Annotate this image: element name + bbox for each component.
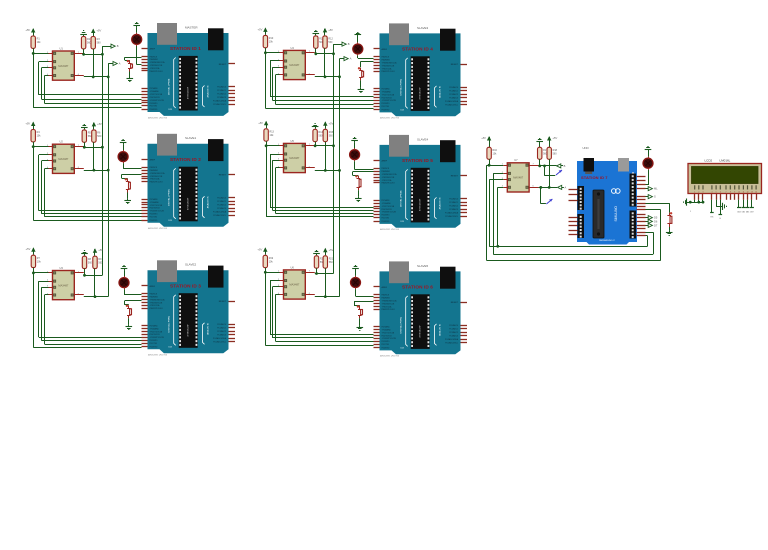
- svg-text:PC3/ADC3: PC3/ADC3: [449, 97, 458, 100]
- ground above R17: [536, 139, 543, 148]
- resistor R1: [31, 36, 41, 48]
- svg-text:ARDUINO UNO R3: ARDUINO UNO R3: [147, 354, 168, 357]
- svg-text:PC2/ADC2: PC2/ADC2: [217, 203, 226, 206]
- svg-text:UNO: UNO: [583, 146, 590, 150]
- svg-text:~PD6/AIN0: ~PD6/AIN0: [150, 201, 159, 204]
- ground above bias resistor: [81, 125, 88, 130]
- svg-text:PC4/ADC4/SDA: PC4/ADC4/SDA: [445, 212, 459, 215]
- arduino board SLAVE2 (STATION ID 3): [142, 260, 236, 356]
- svg-text:RESET: RESET: [451, 302, 459, 304]
- left header bottom: [578, 214, 585, 238]
- power +5V (R12): [323, 28, 333, 36]
- svg-text:~PD5/T1/OC0B: ~PD5/T1/OC0B: [382, 332, 395, 334]
- svg-text:+5V: +5V: [96, 29, 101, 33]
- U6 left pin stubs: [280, 273, 315, 295]
- svg-text:PC5/ADC5/SCL: PC5/ADC5/SCL: [445, 342, 458, 345]
- svg-text:PD2/INT0: PD2/INT0: [150, 340, 158, 342]
- lcd data wires D4-D7: [737, 200, 754, 214]
- resistor R21: [323, 256, 334, 268]
- svg-text:AREF: AREF: [150, 158, 156, 161]
- svg-text:B: B: [348, 42, 350, 46]
- svg-text:MAX487: MAX487: [289, 283, 300, 287]
- svg-text:+5V: +5V: [25, 28, 30, 32]
- ground above master LED: [645, 147, 652, 157]
- svg-text:~PD3/INT1/OC2B: ~PD3/INT1/OC2B: [382, 100, 397, 102]
- svg-text:ATMEGA328P: ATMEGA328P: [187, 323, 190, 336]
- svg-text:PC5/ADC5/SCL: PC5/ADC5/SCL: [213, 214, 226, 217]
- svg-text:+5V: +5V: [328, 28, 333, 32]
- svg-text:PD0/RXD: PD0/RXD: [150, 220, 158, 222]
- resistor R10: [263, 35, 274, 47]
- svg-text:PB0/ICP1/CLKO: PB0/ICP1/CLKO: [382, 183, 396, 185]
- wire U4 pin3 loop to board: [273, 67, 374, 100]
- svg-text:~PB1/OC1A: ~PB1/OC1A: [150, 304, 161, 307]
- svg-text:~PD6/AIN0: ~PD6/AIN0: [150, 90, 159, 93]
- svg-text:MAX487: MAX487: [58, 283, 69, 287]
- mounting hole bottom-left: [579, 235, 581, 237]
- svg-text:ATMEGA328P: ATMEGA328P: [187, 86, 190, 99]
- bus net B column 2 (vertical): [332, 44, 342, 273]
- left pin stubs: [569, 190, 578, 235]
- svg-text:PB0/ICP1/CLKO: PB0/ICP1/CLKO: [150, 182, 164, 184]
- wire net B station 1: [82, 49, 102, 56]
- svg-text:RESET: RESET: [451, 176, 459, 178]
- wire U6 pin4 loop to board: [276, 294, 374, 341]
- svg-text:MAX487: MAX487: [289, 63, 300, 67]
- wire pin1 to R7: [32, 272, 49, 275]
- svg-text:ATMEGA328P: ATMEGA328P: [419, 87, 422, 100]
- svg-text:PC1/ADC1: PC1/ADC1: [449, 201, 458, 204]
- svg-text:PC0/ADC0: PC0/ADC0: [449, 86, 458, 89]
- svg-text:ML: ML: [654, 187, 658, 191]
- lcd data terminals: [646, 216, 658, 228]
- svg-text:D13: D13: [169, 220, 172, 222]
- svg-text:+5V: +5V: [329, 121, 334, 125]
- svg-text:PD7/AIN1: PD7/AIN1: [150, 87, 158, 90]
- svg-text:D13: D13: [169, 109, 172, 111]
- bus net B column 1 (vertical): [101, 46, 111, 275]
- wire pin1 to R13: [265, 144, 280, 147]
- svg-text:PC0/ADC0: PC0/ADC0: [449, 198, 458, 201]
- wire pin1 to R4: [32, 145, 49, 148]
- svg-text:ANALOG IN: ANALOG IN: [206, 85, 209, 97]
- wire button to board: [125, 57, 142, 60]
- svg-text:~PB2/SS/OC1B: ~PB2/SS/OC1B: [382, 303, 396, 305]
- wire button to board: [353, 172, 374, 176]
- resistor R7: [31, 255, 41, 267]
- station 2 block: [25, 122, 141, 221]
- wire LED to board: [356, 289, 374, 296]
- svg-text:PD4/T0/XCK: PD4/T0/XCK: [382, 209, 393, 211]
- svg-text:PC5/ADC5/SCL: PC5/ADC5/SCL: [445, 215, 458, 218]
- svg-text:STATION ID 1: STATION ID 1: [170, 46, 201, 51]
- station 1 block: [25, 23, 141, 108]
- push button station 4: [358, 67, 364, 80]
- svg-text:PB4/MISO: PB4/MISO: [382, 60, 391, 62]
- svg-text:~PB2/SS/OC1B: ~PB2/SS/OC1B: [382, 177, 396, 179]
- wire to virtual terminal 1: [543, 165, 555, 176]
- wire R19 to pin1: [265, 268, 267, 273]
- rs485 transceiver U4: [278, 46, 311, 80]
- ground above bias resistor: [80, 31, 87, 37]
- svg-text:SIMULINO: SIMULINO: [614, 206, 618, 222]
- svg-text:U1: U1: [60, 46, 64, 50]
- wire button to board: [354, 302, 374, 306]
- wire net B station 6: [315, 268, 334, 275]
- svg-text:2: 2: [698, 192, 699, 194]
- svg-text:~PB2/SS/OC1B: ~PB2/SS/OC1B: [150, 176, 164, 178]
- svg-text:PB5/SCK: PB5/SCK: [382, 168, 390, 170]
- svg-text:PC4/ADC4/SDA: PC4/ADC4/SDA: [213, 100, 227, 103]
- wire U7 pin1 to R16 and loop: [487, 164, 661, 261]
- svg-text:+5V: +5V: [97, 122, 102, 126]
- arduino logo: [612, 189, 617, 194]
- wire to virtual terminal 2: [539, 186, 546, 204]
- station 7 (master) block: [481, 136, 660, 261]
- svg-text:~PD3/INT1/OC2B: ~PD3/INT1/OC2B: [150, 211, 165, 213]
- wire U1 pin2 loop to board: [39, 62, 142, 95]
- svg-text:S: S: [654, 195, 656, 199]
- svg-text:~PB2/SS/OC1B: ~PB2/SS/OC1B: [382, 65, 396, 67]
- svg-text:R10: R10: [269, 37, 274, 40]
- svg-text:SLAVE2: SLAVE2: [185, 263, 196, 267]
- svg-text:PC2/ADC2: PC2/ADC2: [449, 93, 458, 96]
- svg-text:PD0/RXD: PD0/RXD: [150, 346, 158, 348]
- svg-text:ARDUINO UNO R3: ARDUINO UNO R3: [379, 117, 400, 120]
- svg-text:PD2/INT0: PD2/INT0: [382, 341, 390, 343]
- svg-text:~PD3/INT1/OC2B: ~PD3/INT1/OC2B: [150, 337, 165, 339]
- svg-text:~PB1/OC1A: ~PB1/OC1A: [382, 67, 393, 70]
- wire pin1 to R10: [264, 51, 280, 54]
- resistor R19: [263, 255, 274, 267]
- svg-text:DB5: DB5: [742, 212, 745, 214]
- svg-text:MASTER: MASTER: [185, 25, 198, 29]
- wire net A station 1: [84, 49, 108, 78]
- ground above bias resistor: [313, 251, 320, 256]
- wire net A station 6: [315, 268, 340, 298]
- svg-text:+5V: +5V: [257, 247, 262, 251]
- wire master button: [646, 203, 670, 213]
- rs485 transceiver U3: [47, 266, 80, 300]
- svg-text:PC2/ADC2: PC2/ADC2: [449, 331, 458, 334]
- svg-text:PD4/T0/XCK: PD4/T0/XCK: [382, 97, 393, 99]
- bus net A column 2 (vertical): [338, 59, 344, 297]
- ground below button: [355, 190, 362, 201]
- svg-text:LCD2: LCD2: [705, 159, 713, 163]
- svg-text:PC2/ADC2: PC2/ADC2: [217, 330, 226, 333]
- right header bottom: [630, 211, 637, 239]
- power +5V (R7): [26, 247, 36, 255]
- svg-text:PD7/AIN1: PD7/AIN1: [382, 88, 390, 91]
- svg-text:+5V: +5V: [26, 247, 31, 251]
- wire U7 pin2 loop: [493, 173, 653, 254]
- wire R1 to pin1: [33, 48, 35, 53]
- resistor R16: [487, 147, 498, 159]
- svg-text:~PB3/MOSI/OC2A: ~PB3/MOSI/OC2A: [150, 172, 166, 175]
- push button station 2: [125, 178, 131, 192]
- resistor R15: [323, 129, 334, 141]
- svg-text:PD4/T0/XCK: PD4/T0/XCK: [382, 335, 393, 337]
- terminal ML: [646, 187, 659, 191]
- ground below master button: [666, 227, 673, 236]
- svg-text:PC0/ADC0: PC0/ADC0: [449, 324, 458, 327]
- svg-text:PD7/AIN1: PD7/AIN1: [150, 198, 158, 201]
- resistor R12: [323, 36, 334, 48]
- svg-text:DB6: DB6: [746, 212, 749, 214]
- svg-text:AREF: AREF: [382, 48, 388, 51]
- right pin stubs: [637, 177, 646, 236]
- wire LED to board: [137, 46, 142, 65]
- svg-text:~PB3/MOSI/OC2A: ~PB3/MOSI/OC2A: [150, 61, 166, 64]
- svg-text:PD1/TXD: PD1/TXD: [150, 217, 158, 219]
- svg-text:PD1/TXD: PD1/TXD: [150, 106, 158, 108]
- lcd RW ground wire: [716, 200, 726, 210]
- svg-text:PD1/TXD: PD1/TXD: [382, 218, 390, 220]
- svg-text:ARDUINO UNO R3: ARDUINO UNO R3: [147, 227, 168, 230]
- svg-text:PC1/ADC1: PC1/ADC1: [217, 200, 226, 203]
- svg-text:D13: D13: [169, 346, 172, 348]
- svg-text:SLAVE4: SLAVE4: [417, 137, 428, 141]
- svg-text:PC0/ADC0: PC0/ADC0: [217, 323, 226, 326]
- svg-text:STATION ID 6: STATION ID 6: [402, 285, 433, 290]
- svg-text:LM016L: LM016L: [720, 159, 731, 163]
- ground above LED: [120, 140, 127, 151]
- wire U2 pin1 loop to board: [33, 147, 141, 221]
- svg-text:R21: R21: [329, 257, 334, 260]
- svg-text:560: 560: [319, 135, 324, 138]
- svg-text:A: A: [119, 62, 121, 66]
- wire net B station 5: [314, 142, 334, 148]
- svg-text:RESET: RESET: [219, 301, 227, 303]
- LED D5: [350, 148, 360, 161]
- arduino board UNO (STATION ID 7): [569, 146, 646, 245]
- svg-text:PD0/RXD: PD0/RXD: [382, 109, 390, 111]
- wire net B station 4: [314, 48, 333, 55]
- terminal B column 2: [340, 42, 350, 46]
- power +5V (R4): [25, 122, 35, 130]
- svg-text:DIGITAL ( PWM): DIGITAL ( PWM): [400, 190, 403, 207]
- svg-text:U7: U7: [514, 158, 518, 162]
- wire pin1 to R1: [32, 52, 49, 55]
- svg-text:13: 13: [751, 192, 753, 194]
- svg-text:PD4/T0/XCK: PD4/T0/XCK: [150, 208, 161, 210]
- ground above bias resistor: [81, 251, 88, 256]
- svg-text:10: 10: [738, 192, 740, 194]
- svg-text:PC4/ADC4/SDA: PC4/ADC4/SDA: [445, 338, 459, 341]
- svg-text:WWW.ARDUINO.CC: WWW.ARDUINO.CC: [599, 239, 616, 242]
- svg-text:STATION ID 4: STATION ID 4: [402, 47, 433, 52]
- svg-text:R19: R19: [269, 257, 274, 260]
- svg-text:SLAVE1: SLAVE1: [185, 136, 196, 140]
- svg-text:PD1/TXD: PD1/TXD: [150, 343, 158, 345]
- svg-text:U3: U3: [60, 266, 64, 270]
- lcd E wire terminal: [719, 200, 723, 220]
- svg-text:PC1/ADC1: PC1/ADC1: [217, 326, 226, 329]
- ground below button: [126, 318, 133, 329]
- push button station 3: [126, 305, 132, 319]
- svg-text:ATMEGA328P: ATMEGA328P: [419, 325, 422, 338]
- terminal A master: [558, 185, 567, 189]
- svg-text:PD1/TXD: PD1/TXD: [382, 344, 390, 346]
- svg-text:B: B: [117, 44, 119, 48]
- svg-text:STATION ID 7: STATION ID 7: [581, 175, 608, 180]
- ground below button: [357, 318, 364, 330]
- svg-text:ANALOG IN: ANALOG IN: [206, 322, 209, 334]
- svg-text:560: 560: [97, 42, 102, 45]
- svg-text:PC5/ADC5/SCL: PC5/ADC5/SCL: [213, 103, 226, 106]
- svg-text:PC3/ADC3: PC3/ADC3: [449, 208, 458, 211]
- svg-text:PC4/ADC4/SDA: PC4/ADC4/SDA: [213, 210, 227, 213]
- svg-text:PB5/SCK: PB5/SCK: [382, 57, 390, 59]
- arduino board SLAVE5 (STATION ID 6): [374, 261, 468, 357]
- wire LED to board: [124, 289, 142, 295]
- svg-text:STATION ID 5: STATION ID 5: [402, 158, 433, 163]
- LED master: [643, 157, 653, 170]
- U5 left pin stubs: [280, 146, 315, 168]
- ground above bias resistor: [313, 31, 320, 36]
- svg-text:12: 12: [747, 192, 749, 194]
- svg-text:PD1/TXD: PD1/TXD: [382, 106, 390, 108]
- resistor R14: [313, 129, 324, 141]
- wire button to board: [361, 61, 374, 67]
- power +5V (R19): [257, 247, 267, 255]
- left header top: [578, 186, 585, 210]
- resistor R5: [82, 130, 92, 142]
- svg-text:PC2/ADC2: PC2/ADC2: [217, 93, 226, 96]
- wire U6 pin1 loop to board: [265, 272, 373, 345]
- svg-text:U6: U6: [291, 265, 295, 269]
- svg-text:PD4/T0/XCK: PD4/T0/XCK: [150, 334, 161, 336]
- LED D1: [132, 33, 142, 46]
- svg-text:PC3/ADC3: PC3/ADC3: [217, 207, 226, 210]
- svg-text:D13: D13: [401, 109, 404, 111]
- svg-text:U5: U5: [291, 139, 295, 143]
- svg-text:PD2/INT0: PD2/INT0: [382, 103, 390, 105]
- svg-text:B: B: [564, 164, 566, 168]
- wire net A station 2: [84, 142, 108, 171]
- wire pin1 to R19: [264, 271, 280, 274]
- svg-text:ARDUINO UNO R3: ARDUINO UNO R3: [147, 116, 168, 119]
- wire LED to board: [358, 56, 374, 59]
- svg-text:PD7/AIN1: PD7/AIN1: [150, 325, 158, 328]
- svg-text:ATMEGA328P: ATMEGA328P: [187, 197, 190, 210]
- svg-text:DB7: DB7: [750, 212, 753, 214]
- wire net A station 3: [84, 269, 108, 298]
- svg-text:PD0/RXD: PD0/RXD: [150, 109, 158, 111]
- LCD display LCD2 LM016L: [688, 159, 762, 194]
- svg-text:PB0/ICP1/CLKO: PB0/ICP1/CLKO: [150, 308, 164, 310]
- svg-text:PD4/T0/XCK: PD4/T0/XCK: [150, 97, 161, 99]
- wire U7 pin4 loop (tied to pin3 line): [496, 187, 503, 247]
- svg-text:PC1/ADC1: PC1/ADC1: [449, 90, 458, 93]
- station 3 block: [26, 247, 142, 347]
- ground above LED: [351, 138, 358, 149]
- svg-text:~PB3/MOSI/OC2A: ~PB3/MOSI/OC2A: [382, 62, 398, 65]
- U3 left pin stubs: [49, 273, 84, 295]
- ground below button: [127, 72, 134, 82]
- wire U4 pin2 loop to board: [270, 61, 374, 97]
- svg-text:560: 560: [328, 41, 333, 44]
- ground below button: [124, 193, 131, 204]
- power +5V (R10): [258, 27, 268, 35]
- svg-text:+5V: +5V: [98, 248, 103, 252]
- arduino board SLAVE4 (STATION ID 5): [374, 135, 468, 231]
- wire R4 to pin1: [33, 142, 35, 147]
- svg-text:PC3/ADC3: PC3/ADC3: [217, 333, 226, 336]
- svg-text:D5: D5: [654, 216, 658, 220]
- svg-text:AREF: AREF: [382, 160, 388, 163]
- bus net A column 1 (vertical): [107, 64, 113, 297]
- svg-text:~PB2/SS/OC1B: ~PB2/SS/OC1B: [150, 65, 164, 67]
- station 4 block: [258, 27, 374, 108]
- svg-text:3: 3: [703, 192, 704, 194]
- svg-text:PD2/INT0: PD2/INT0: [150, 103, 158, 105]
- svg-text:PD7/AIN1: PD7/AIN1: [382, 326, 390, 329]
- ground below button: [358, 80, 365, 92]
- power +5V (R3): [91, 29, 101, 37]
- svg-text:11: 11: [743, 192, 745, 194]
- svg-text:PB4/MISO: PB4/MISO: [382, 171, 391, 173]
- push button master: [667, 212, 672, 227]
- resistor R6: [92, 130, 102, 142]
- wire U4 pin1 loop to board: [265, 53, 373, 109]
- svg-text:ATMEGA328P: ATMEGA328P: [419, 198, 422, 211]
- svg-text:R13: R13: [270, 130, 275, 133]
- svg-text:MAX487: MAX487: [289, 156, 300, 160]
- virtual terminal arrow 2: [546, 199, 552, 204]
- svg-text:STATION ID 2: STATION ID 2: [170, 157, 201, 162]
- svg-text:~PD6/AIN0: ~PD6/AIN0: [382, 329, 391, 332]
- wire net B master: [538, 159, 556, 167]
- svg-text:ANALOG IN: ANALOG IN: [206, 196, 209, 208]
- svg-text:PC4/ADC4/SDA: PC4/ADC4/SDA: [213, 337, 227, 340]
- svg-text:~PB1/OC1A: ~PB1/OC1A: [150, 178, 161, 181]
- rs485 transceiver U6: [278, 265, 311, 299]
- ground above LED: [121, 266, 128, 277]
- svg-text:~PB2/SS/OC1B: ~PB2/SS/OC1B: [150, 302, 164, 304]
- rs485 transceiver U5: [278, 139, 311, 173]
- svg-text:SLAVE3: SLAVE3: [417, 26, 428, 30]
- rs485 transceiver U1: [47, 46, 80, 80]
- svg-text:~PD5/T1/OC0B: ~PD5/T1/OC0B: [382, 94, 395, 96]
- svg-text:560: 560: [553, 153, 558, 156]
- svg-text:PC1/ADC1: PC1/ADC1: [449, 328, 458, 331]
- svg-text:ARDUINO UNO R3: ARDUINO UNO R3: [379, 228, 400, 231]
- resistor R13: [264, 129, 275, 141]
- svg-text:MAX487: MAX487: [58, 64, 69, 68]
- wire R13 to pin1: [266, 141, 268, 146]
- svg-text:~PD5/T1/OC0B: ~PD5/T1/OC0B: [382, 206, 395, 208]
- svg-text:~PD6/AIN0: ~PD6/AIN0: [382, 202, 391, 205]
- svg-text:PD2/INT0: PD2/INT0: [150, 214, 158, 216]
- svg-text:~PB3/MOSI/OC2A: ~PB3/MOSI/OC2A: [382, 300, 398, 303]
- U1 left pin stubs: [49, 54, 84, 76]
- svg-text:6: 6: [720, 192, 721, 194]
- svg-text:AREF: AREF: [150, 48, 156, 51]
- power +5V (R16): [481, 136, 491, 147]
- rs485 transceiver U2: [47, 140, 80, 174]
- LED D3: [119, 276, 129, 289]
- svg-text:+5V: +5V: [481, 136, 486, 140]
- wire net A master: [539, 159, 557, 189]
- wire net B station 2: [83, 142, 103, 148]
- svg-text:MAX487: MAX487: [513, 176, 524, 180]
- wire LED to board: [123, 163, 141, 168]
- svg-text:DIGITAL ( PWM): DIGITAL ( PWM): [168, 78, 171, 95]
- svg-text:PD7/AIN1: PD7/AIN1: [382, 199, 390, 202]
- terminal B master: [557, 164, 566, 168]
- push button station 1: [127, 60, 133, 72]
